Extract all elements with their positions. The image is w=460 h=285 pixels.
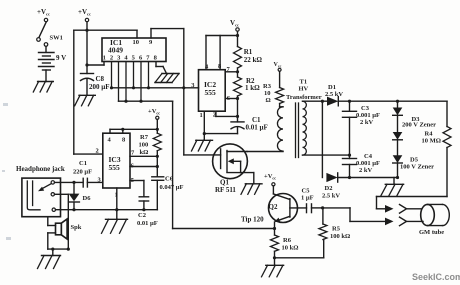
resistor R1 22k [234, 47, 263, 69]
wire R4 to GM tube anode [377, 148, 448, 209]
wire R1 to R2 junction pin 7 [225, 68, 239, 77]
svg-text:D5: D5 [410, 157, 419, 164]
svg-text:200 V Zener: 200 V Zener [402, 122, 436, 129]
capacitor C3 0.001uF 2kV [343, 101, 380, 155]
resistor R2 1k [234, 77, 261, 96]
ground on D2 rail [381, 178, 404, 196]
wire IC1 pin 8 to chassis symbol [156, 62, 167, 74]
svg-text:Q2: Q2 [269, 203, 278, 211]
svg-text:10: 10 [133, 39, 140, 46]
wire jack tip to C1 [55, 181, 84, 184]
svg-text:22 kΩ: 22 kΩ [244, 56, 263, 64]
svg-text:R1: R1 [244, 48, 253, 56]
connector arrows top GM lead [385, 205, 422, 214]
svg-text:Spk: Spk [71, 224, 82, 231]
capacitor C1 0.01uF [231, 116, 268, 134]
svg-text:C6: C6 [165, 176, 174, 183]
wire SW1 to battery [45, 46, 47, 51]
svg-text:100 V Zener: 100 V Zener [400, 164, 434, 171]
svg-text:1: 1 [200, 112, 203, 119]
svg-text:SW1: SW1 [50, 35, 63, 42]
wire bus1 IC1 outputs to IC2 pin 3 [110, 62, 199, 90]
scan speckle marks [2, 103, 11, 240]
speaker Spk [48, 217, 82, 249]
svg-text:9 V: 9 V [56, 54, 66, 62]
svg-text:D1: D1 [328, 84, 336, 91]
capacitor C6 0.047uF [152, 176, 184, 210]
transformer T1 HV [277, 79, 321, 158]
transistor Q2 Tip120 [241, 194, 307, 224]
wire IC1 pin 9 loop to bus [151, 29, 185, 90]
wire Q1 drain to transformer primary [247, 151, 283, 153]
svg-text:100: 100 [139, 142, 149, 149]
GM tube [419, 204, 449, 236]
svg-text:SeekIC.com: SeekIC.com [412, 272, 460, 282]
svg-text:C3: C3 [361, 105, 370, 112]
diode D6 [69, 182, 92, 209]
svg-text:0.047 µF: 0.047 µF [160, 184, 184, 191]
switch SW1 [37, 22, 63, 47]
svg-text:2: 2 [110, 55, 113, 62]
wire jack ring down [55, 194, 70, 250]
wire Q1 source to ground [241, 173, 262, 195]
wire secondary bottom rail [303, 154, 352, 157]
svg-text:C8: C8 [96, 75, 105, 83]
svg-text:R7: R7 [140, 134, 149, 141]
diode D2 2.5kV [322, 173, 340, 200]
svg-text:D6: D6 [83, 195, 92, 202]
ground below C8 [75, 80, 96, 106]
svg-text:1: 1 [103, 55, 106, 62]
wire audio feedback long run from bus2 [173, 101, 275, 228]
ground below IC3 [102, 219, 128, 233]
capacitor C8 200uF [81, 74, 110, 92]
svg-text:100 kΩ: 100 kΩ [330, 233, 350, 240]
svg-text:RF 511: RF 511 [215, 186, 236, 194]
svg-text:1 µF: 1 µF [301, 195, 314, 202]
ground below IC2 pin 1 [192, 140, 213, 151]
svg-text:10 kΩ: 10 kΩ [282, 245, 299, 252]
wire R2 to pin 6 and pin 2 [216, 96, 239, 122]
wire IC3 pin 5 to C2 [130, 181, 144, 197]
svg-text:555: 555 [109, 163, 121, 172]
svg-text:4049: 4049 [108, 46, 123, 55]
svg-text:200 µF: 200 µF [89, 83, 110, 91]
wire Vcc rail to IC2 pins 4 8 [206, 36, 238, 70]
svg-text:C4: C4 [364, 153, 373, 160]
zener D5 100V [393, 155, 434, 177]
svg-text:10: 10 [264, 90, 271, 97]
svg-text:kΩ: kΩ [140, 149, 149, 156]
node +Vcc main supply [78, 8, 91, 30]
svg-text:555: 555 [205, 88, 217, 97]
svg-text:2 kV: 2 kV [359, 167, 372, 174]
svg-text:R3: R3 [263, 83, 272, 90]
svg-text:Tip 120: Tip 120 [241, 216, 264, 224]
capacitor C2 0.01uF [137, 197, 158, 227]
battery 9V [39, 53, 67, 71]
svg-text:0.001 µF: 0.001 µF [356, 160, 380, 167]
svg-text:T1: T1 [300, 79, 308, 86]
wire Vcc rail to IC1 pin 10 [74, 29, 137, 38]
svg-text:Transformer: Transformer [286, 94, 322, 101]
timer IC2 555 box [191, 63, 231, 119]
svg-text:0.01 µF: 0.01 µF [137, 220, 158, 227]
node +Vcc above Q2 [264, 173, 276, 194]
svg-text:10 MΩ: 10 MΩ [422, 138, 441, 145]
svg-text:R5: R5 [332, 226, 341, 233]
wire jack sleeve ground line [56, 208, 158, 211]
svg-text:0.01 µF: 0.01 µF [246, 124, 268, 132]
resistor R4 10M [422, 101, 452, 147]
resistor R6 10k [271, 235, 299, 252]
wire gate drive from bus to Q1 [184, 88, 221, 155]
svg-text:Vcc: Vcc [274, 62, 282, 68]
wire C1 return to IC2 pin 1 [203, 111, 238, 140]
transistor Q1 RF511 MOSFET [213, 144, 254, 194]
wire secondary top node down to D2 [321, 101, 323, 177]
wire IC3 pin 1 to ground [116, 188, 118, 219]
svg-text:C2: C2 [138, 212, 146, 219]
wire R6 bottom node [273, 240, 324, 266]
wire secondary top to D1 [303, 100, 328, 103]
wire Vcc rail to IC3 pins 4 8 [110, 128, 157, 133]
ground below battery [33, 70, 53, 92]
resistor R3 10 ohm [263, 83, 284, 104]
capacitor C1 220uF coupling [73, 160, 103, 187]
svg-text:0.001 µF: 0.001 µF [356, 112, 380, 119]
node Vcc above R1 [230, 19, 239, 47]
diode D1 2.5kV [325, 84, 343, 106]
wire R3 to primary top [280, 104, 283, 107]
svg-text:C5: C5 [302, 188, 311, 195]
headphone jack [16, 165, 65, 217]
svg-text:2 kV: 2 kV [360, 119, 373, 126]
svg-text:HV: HV [299, 86, 309, 93]
wire Q2 emitter down to R6 [273, 222, 276, 235]
resistor R5 100k [319, 208, 350, 240]
svg-text:Ω: Ω [266, 97, 271, 104]
svg-text:220 µF: 220 µF [73, 169, 92, 176]
svg-text:1 kΩ: 1 kΩ [245, 84, 260, 92]
svg-text:Headphone jack: Headphone jack [16, 165, 65, 173]
svg-text:R6: R6 [283, 237, 292, 244]
node Vcc above R3 [274, 62, 282, 88]
wire speaker return junction [48, 248, 69, 256]
svg-text:C1: C1 [79, 160, 87, 167]
svg-text:2: 2 [213, 112, 216, 119]
timer IC3 555 box [96, 133, 136, 198]
resistor R7 100k [139, 133, 162, 156]
capacitor C4 0.001uF 2kV [343, 153, 380, 178]
wire R7 bottom pins 7 6 [130, 151, 159, 177]
wire Vcc down to C8 and IC1 pin 1 [85, 30, 104, 73]
ground below speaker [38, 256, 61, 269]
svg-text:2.5 kV: 2.5 kV [325, 91, 343, 98]
wire C5 node to GM tube cathode [323, 208, 385, 222]
node +Vcc above R7 [148, 108, 160, 133]
svg-text:2.5 kV: 2.5 kV [322, 193, 340, 200]
zener D3 200V (two sections) [393, 101, 436, 155]
op-amp U1 / hex inverter IC1 4049 box [102, 38, 166, 62]
node +Vcc battery terminal [37, 8, 50, 22]
ground below R6 [262, 265, 284, 277]
svg-text:2: 2 [96, 148, 99, 155]
wire D2 output rail [338, 176, 399, 179]
wire HV rail [338, 100, 447, 103]
svg-text:D2: D2 [325, 185, 333, 192]
chassis ground hatched symbol [155, 74, 179, 83]
wire left branch down to IC3 pin 2 [74, 30, 103, 154]
svg-text:GM tube: GM tube [419, 229, 444, 236]
capacitor C5 1uF [301, 188, 324, 213]
wire bus2 IC1 inputs [119, 62, 173, 103]
connector arrows bottom GM lead [385, 217, 423, 226]
svg-text:R4: R4 [425, 131, 434, 138]
